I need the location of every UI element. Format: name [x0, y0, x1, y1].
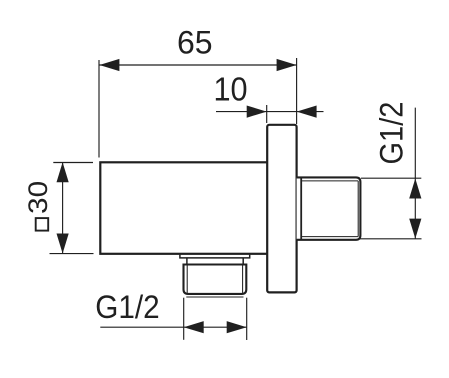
svg-text:10: 10: [213, 71, 247, 108]
svg-text:65: 65: [177, 25, 213, 61]
svg-text:G1/2: G1/2: [374, 102, 410, 165]
svg-text:30: 30: [23, 181, 53, 214]
svg-text:G1/2: G1/2: [95, 289, 159, 325]
